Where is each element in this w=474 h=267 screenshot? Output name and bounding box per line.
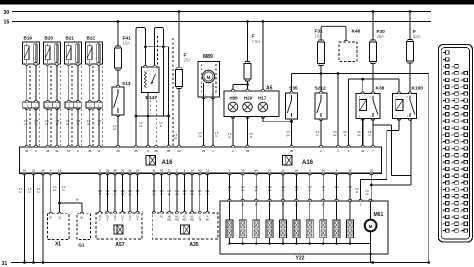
wire branch to G1	[58, 202, 61, 205]
svg-text:32: 32	[246, 149, 250, 153]
pin row 9	[446, 106, 449, 109]
pin row 2	[446, 58, 449, 61]
svg-text:Y22: Y22	[296, 256, 305, 262]
svg-text:50: 50	[128, 168, 132, 172]
svg-text:sw: sw	[198, 135, 201, 138]
wires B20 to A16	[47, 108, 49, 147]
node S35/H17 junction	[291, 119, 293, 147]
svg-text:sw: sw	[365, 193, 368, 196]
svg-text:43: 43	[46, 149, 50, 153]
svg-text:B19: B19	[24, 36, 33, 41]
pin row 15	[446, 147, 449, 150]
svg-text:32: 32	[361, 149, 365, 153]
wires A16 to X1	[50, 173, 52, 213]
wires to A16	[147, 116, 149, 147]
wire H17 return to S35 node	[262, 117, 264, 122]
svg-text:33: 33	[241, 168, 245, 172]
pin row 14	[446, 140, 449, 143]
A16 top pin row	[25, 145, 28, 147]
svg-text:15A: 15A	[123, 41, 131, 46]
svg-text:12: 12	[281, 168, 285, 172]
pin row 6	[446, 85, 449, 88]
wires B22 to A16	[89, 108, 91, 147]
wire M61 ground to bus31	[370, 244, 372, 263]
pin row 27	[446, 229, 449, 232]
valve block Y22	[220, 201, 388, 254]
node bus30 junctions	[178, 10, 181, 13]
svg-text:M61: M61	[374, 212, 384, 218]
wire loop right (B147 return)	[153, 29, 155, 67]
svg-text:31: 31	[2, 261, 8, 267]
wire K100 coil jog down to Y22	[398, 119, 400, 131]
svg-text:M: M	[369, 224, 373, 229]
wire S13 to A16	[117, 115, 119, 147]
wire tie at y47	[145, 46, 168, 48]
wire bus15 to F41	[117, 22, 119, 47]
generator G1	[77, 214, 91, 240]
svg-text:26: 26	[106, 168, 110, 172]
svg-text:H52: H52	[175, 219, 180, 221]
connector symbol A16 left	[146, 156, 156, 165]
pin row 5	[446, 78, 449, 81]
pin row 3	[446, 65, 449, 68]
svg-text:28: 28	[155, 149, 159, 153]
tie line y116	[136, 115, 169, 117]
pin row 7	[446, 92, 449, 95]
wires A16 to Y22	[228, 173, 230, 201]
svg-text:H17: H17	[258, 96, 267, 101]
wire K38 switch branch joins K100 switch wire	[392, 174, 412, 176]
svg-text:sw: sw	[106, 193, 109, 196]
svg-text:br: br	[56, 122, 58, 126]
svg-text:41: 41	[152, 168, 156, 172]
svg-text:11: 11	[97, 149, 100, 153]
svg-text:S13: S13	[122, 81, 131, 87]
svg-text:15: 15	[32, 168, 36, 172]
svg-text:sw: sw	[175, 193, 178, 196]
svg-text:H99: H99	[229, 96, 238, 101]
svg-text:45: 45	[160, 168, 164, 172]
solenoid coils in Y22	[228, 199, 231, 201]
wires M89 to A16	[203, 97, 205, 147]
svg-text:29: 29	[116, 149, 120, 153]
svg-text:33: 33	[121, 168, 125, 172]
svg-text:A57: A57	[115, 242, 124, 248]
svg-text:50A: 50A	[413, 34, 421, 39]
wire coil feed	[348, 79, 350, 147]
svg-text:25: 25	[134, 149, 138, 153]
svg-text:36: 36	[290, 149, 294, 153]
pin row 24	[446, 208, 449, 211]
wires A16 to A35	[153, 173, 155, 213]
svg-text:44: 44	[55, 149, 59, 153]
wire F to lamp feed node	[247, 81, 249, 91]
wire bus30 to F fuse	[178, 12, 180, 68]
svg-text:S212: S212	[315, 86, 327, 92]
pin row 23	[446, 202, 449, 205]
svg-text:sw: sw	[333, 134, 336, 137]
svg-text:26: 26	[295, 168, 299, 172]
svg-text:25A: 25A	[377, 34, 385, 39]
control unit A35	[152, 213, 218, 239]
svg-text:gr: gr	[228, 135, 230, 139]
svg-text:30: 30	[167, 149, 171, 153]
svg-text:64: 64	[255, 168, 259, 172]
svg-text:A16: A16	[302, 160, 314, 166]
wire pair below B20	[47, 65, 49, 102]
wires lamps to A16	[232, 117, 234, 147]
pin row 13	[446, 133, 449, 136]
svg-text:14: 14	[190, 168, 194, 172]
node bus15 junctions	[117, 20, 120, 23]
svg-text:22: 22	[177, 149, 181, 153]
svg-text:br: br	[99, 192, 101, 196]
svg-text:10: 10	[370, 168, 374, 172]
svg-text:K46: K46	[352, 29, 361, 35]
pin row 12	[446, 126, 449, 129]
svg-text:TB: TB	[198, 219, 201, 221]
svg-text:B21: B21	[66, 36, 75, 41]
inline connector below B20	[44, 102, 60, 108]
top border bar	[0, 0, 474, 5]
svg-text:24: 24	[136, 168, 140, 172]
svg-text:A35: A35	[189, 242, 198, 248]
wire feed line	[292, 73, 429, 75]
pin row 17	[446, 160, 449, 163]
connector symbol A16 right	[283, 156, 293, 165]
wire F41 to S13	[117, 70, 119, 86]
instrument unit A57	[96, 213, 142, 239]
svg-text:7.5A: 7.5A	[252, 39, 261, 44]
svg-text:13: 13	[206, 168, 210, 172]
wire B147 bottom pin	[147, 92, 149, 116]
pin row 18	[446, 167, 449, 170]
wire loop left (B147 supply)	[135, 29, 137, 147]
pin row 10	[446, 112, 449, 115]
svg-text:H52: H52	[167, 219, 172, 221]
wire H17 to bus15	[262, 22, 264, 92]
pin row 11	[446, 119, 449, 122]
pin row 4	[446, 71, 449, 74]
svg-text:34: 34	[25, 149, 29, 153]
svg-text:br: br	[19, 190, 21, 194]
svg-text:br: br	[37, 190, 39, 194]
wire pair below B22	[89, 65, 91, 102]
A16 bottom pin row	[23, 173, 26, 175]
wire feedline to A16 pin	[337, 74, 339, 148]
wire M61 feed from A16	[370, 173, 372, 201]
wire feed to H99	[233, 84, 248, 86]
wire K38 switch to A16 + branch	[372, 119, 374, 147]
svg-text:M: M	[207, 75, 211, 80]
svg-text:38: 38	[113, 168, 117, 172]
inline connector below B21	[65, 102, 81, 108]
pin row 8	[446, 99, 449, 102]
svg-text:sw: sw	[113, 128, 116, 131]
svg-text:2w: 2w	[357, 133, 360, 137]
svg-text:15: 15	[4, 20, 10, 26]
svg-text:br: br	[215, 134, 217, 138]
svg-text:br: br	[35, 122, 37, 126]
node relay feed into Y22	[359, 199, 362, 201]
svg-text:br: br	[316, 133, 318, 137]
wires A16 to A57	[99, 173, 101, 213]
pin row 26	[446, 222, 449, 225]
svg-text:gr: gr	[199, 192, 201, 196]
wire F31 top bridge to K46	[321, 26, 346, 40]
svg-text:X1: X1	[55, 242, 61, 248]
svg-text:sw: sw	[174, 137, 177, 140]
svg-text:gr: gr	[309, 188, 311, 192]
svg-text:37: 37	[268, 168, 272, 172]
pin row 21	[446, 188, 449, 191]
svg-text:sw: sw	[53, 189, 56, 192]
svg-text:H29: H29	[244, 96, 253, 101]
wire F31 down to S212	[320, 66, 322, 93]
svg-text:K100: K100	[412, 86, 424, 92]
svg-text:H51: H51	[182, 219, 187, 221]
ECU A16	[19, 147, 381, 173]
svg-text:34: 34	[322, 168, 326, 172]
svg-text:A16: A16	[162, 160, 174, 166]
svg-text:br: br	[77, 122, 79, 126]
svg-text:40: 40	[198, 168, 202, 172]
svg-text:B20: B20	[45, 36, 54, 41]
svg-text:45: 45	[88, 149, 92, 153]
svg-text:36: 36	[348, 168, 352, 172]
pin row 1	[446, 51, 449, 54]
svg-text:M89: M89	[203, 54, 213, 60]
connector strip X (55-pin)	[438, 45, 472, 243]
inline connector below B19	[23, 102, 39, 108]
svg-text:23: 23	[202, 149, 206, 153]
svg-text:br: br	[160, 192, 162, 196]
svg-text:K38: K38	[376, 86, 385, 92]
wire F to A16	[178, 89, 180, 147]
svg-text:30: 30	[4, 10, 10, 16]
svg-text:br: br	[228, 188, 230, 192]
wire S212 to A16	[320, 119, 322, 147]
wires B21 to A16	[68, 108, 70, 147]
svg-text:25A: 25A	[184, 58, 192, 63]
svg-text:19: 19	[41, 168, 45, 172]
svg-text:BA: BA	[206, 218, 210, 221]
Y22 internal ground bus	[229, 243, 370, 245]
battery X1	[48, 214, 70, 240]
svg-text:14: 14	[58, 168, 62, 172]
svg-text:16: 16	[23, 168, 27, 172]
wires A16 to bus31	[24, 173, 26, 262]
svg-text:B147: B147	[146, 95, 158, 101]
wire K100 switch down to M61 node	[410, 119, 412, 185]
inline connector below B22	[86, 102, 102, 108]
wire bus15 to F 7.5A	[247, 22, 249, 62]
svg-text:S35: S35	[289, 86, 298, 92]
pin row 19	[446, 174, 449, 177]
pin row 22	[446, 195, 449, 198]
pin row 16	[446, 154, 449, 157]
wires B19 to A16	[26, 108, 28, 147]
wire pair below B19	[26, 65, 28, 102]
svg-text:br: br	[160, 124, 162, 128]
wire K38 coil to A16	[362, 119, 364, 147]
svg-text:br: br	[98, 122, 100, 126]
wire right drop to bus31	[428, 74, 430, 263]
svg-text:10: 10	[67, 149, 71, 153]
svg-text:br: br	[28, 190, 30, 194]
pin row 25	[446, 215, 449, 218]
svg-text:21: 21	[168, 168, 172, 172]
svg-text:G1: G1	[78, 243, 85, 249]
svg-text:sw: sw	[241, 189, 244, 192]
svg-text:H51: H51	[190, 219, 195, 221]
wire pair below B21	[68, 65, 70, 102]
dashed screen lines	[150, 100, 152, 114]
pin row 20	[446, 181, 449, 184]
svg-text:B22: B22	[87, 36, 96, 41]
